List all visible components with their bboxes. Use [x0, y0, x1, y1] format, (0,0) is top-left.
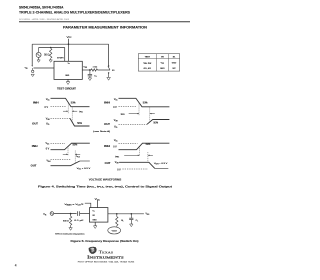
- svg-text:OUT: OUT: [105, 161, 111, 165]
- svg-text:SCLS391E – APRIL 1998 – REVISE: SCLS391E – APRIL 1998 – REVISED APRIL 20…: [19, 18, 69, 21]
- svg-text:TRIPLE 2-CHANNEL ANALOG MULTIP: TRIPLE 2-CHANNEL ANALOG MULTIPLEXERS/DEM…: [19, 10, 131, 14]
- svg-text:OUT: OUT: [104, 122, 110, 126]
- svg-text:0 V: 0 V: [113, 147, 117, 149]
- svg-text:VOLTAGE WAVEFORMS: VOLTAGE WAVEFORMS: [89, 177, 122, 181]
- svg-text:50%: 50%: [73, 145, 78, 147]
- svg-text:0 V: 0 V: [45, 107, 49, 109]
- svg-text:V+: V+: [93, 211, 95, 213]
- svg-text:PARAMETER MEASUREMENT INFORMAT: PARAMETER MEASUREMENT INFORMATION: [63, 26, 148, 30]
- svg-text:GND: GND: [65, 75, 70, 77]
- svg-text:4: 4: [15, 264, 17, 268]
- svg-text:50%: 50%: [146, 144, 151, 146]
- svg-text:50%: 50%: [143, 102, 148, 104]
- svg-text:GND: GND: [160, 68, 165, 70]
- svg-text:1 kΩ: 1 kΩ: [93, 67, 98, 69]
- svg-text:V+: V+: [68, 63, 70, 65]
- svg-text:0 V: 0 V: [46, 149, 50, 151]
- svg-text:SN54LV4053A, SN74LV4053A: SN54LV4053A, SN74LV4053A: [19, 6, 64, 10]
- svg-text:POST OFFICE BOX 655303 • DAL: POST OFFICE BOX 655303 • DALLAS, TEXAS 7…: [78, 261, 135, 264]
- svg-text:INH: INH: [32, 144, 38, 148]
- svg-text:GND: GND: [172, 63, 177, 65]
- svg-text:Figure 4. Switching Time (tPZL: Figure 4. Switching Time (tPZL, tPLZ, tP…: [38, 184, 172, 188]
- svg-text:NOTE A: CL includes probe and: NOTE A: CL includes probe and jig capaci…: [55, 232, 85, 235]
- svg-text:INH: INH: [33, 100, 39, 104]
- svg-text:INH: INH: [57, 58, 64, 60]
- svg-text:TEST: TEST: [145, 56, 151, 58]
- svg-text:INH: INH: [104, 100, 110, 104]
- svg-text:GND: GND: [93, 219, 98, 221]
- svg-text:(see Note A): (see Note A): [93, 130, 110, 133]
- svg-text:INH: INH: [104, 144, 110, 148]
- svg-text:50%: 50%: [153, 123, 158, 125]
- svg-text:600 Ω: 600 Ω: [63, 221, 69, 223]
- svg-text:TEXAS: TEXAS: [99, 250, 114, 255]
- svg-text:50 Ω: 50 Ω: [44, 55, 49, 57]
- svg-text:0 V: 0 V: [117, 169, 121, 171]
- svg-text:INSTRUMENTS: INSTRUMENTS: [87, 255, 124, 260]
- svg-text:VCC/2: VCC/2: [112, 230, 118, 232]
- svg-text:50%: 50%: [77, 123, 82, 125]
- svg-text:OUT: OUT: [31, 163, 37, 167]
- svg-text:Figure 5. Frequency Response (: Figure 5. Frequency Response (Switch On): [71, 239, 139, 243]
- svg-text:0.1 µF: 0.1 µF: [74, 220, 84, 222]
- svg-text:0 V: 0 V: [113, 107, 117, 109]
- svg-text:OUT: OUT: [32, 122, 38, 126]
- svg-text:50%: 50%: [71, 102, 76, 104]
- svg-text:TEST CIRCUIT: TEST CIRCUIT: [57, 86, 76, 90]
